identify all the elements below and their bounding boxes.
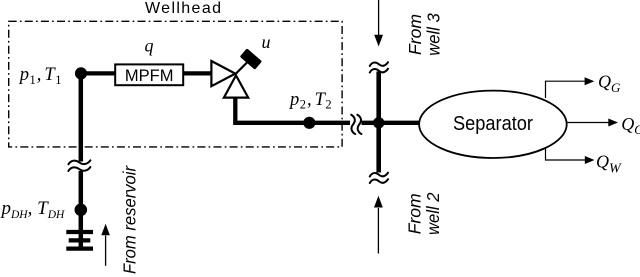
svg-text:well 2: well 2	[423, 192, 443, 235]
separator vessel	[419, 91, 567, 158]
choke valve bottom triangle	[224, 75, 248, 97]
svg-text:u: u	[262, 32, 271, 52]
svg-text:Wellhead: Wellhead	[145, 0, 221, 17]
wire after pipe break to separator	[362, 121, 421, 125]
pipe break on riser	[68, 160, 90, 171]
valve actuator stem	[236, 59, 251, 74]
svg-text:well 3: well 3	[424, 13, 444, 56]
wire from node p1 to MPFM	[81, 71, 116, 75]
manifold vertical pipe	[376, 72, 381, 173]
svg-text:From: From	[405, 14, 425, 55]
choke valve left triangle	[211, 61, 235, 86]
oil outlet line	[567, 122, 610, 124]
pipe break from well 2	[370, 173, 388, 183]
reservoir symbol	[66, 232, 93, 249]
MPFM box	[115, 64, 183, 85]
manifold junction node	[373, 117, 384, 128]
wire valve outlet down	[235, 95, 350, 123]
node p2	[303, 117, 315, 129]
valve actuator handle u	[240, 48, 262, 69]
water outlet line	[546, 148, 586, 160]
pipe break on flowline	[351, 115, 361, 134]
svg-text:From reservoir: From reservoir	[119, 165, 139, 274]
arrow from well 2	[377, 208, 379, 254]
arrow from well 3	[378, 0, 380, 35]
svg-text:From: From	[404, 193, 424, 234]
wire MPFM to valve	[183, 71, 212, 75]
gas outlet line	[546, 81, 586, 98]
arrow from reservoir	[105, 236, 107, 266]
pipe break from well 3	[370, 62, 388, 72]
wire riser from downhole to node p1	[79, 73, 84, 161]
node p1	[75, 67, 87, 79]
wellhead boundary dash-dot box	[9, 21, 342, 147]
label From well 2	[404, 192, 443, 235]
svg-text:q: q	[145, 36, 154, 56]
label From well 3	[405, 13, 444, 56]
node pDH	[75, 204, 88, 217]
svg-text:Separator: Separator	[453, 113, 533, 135]
wire downhole below break	[79, 171, 84, 250]
svg-text:MPFM: MPFM	[125, 67, 174, 85]
